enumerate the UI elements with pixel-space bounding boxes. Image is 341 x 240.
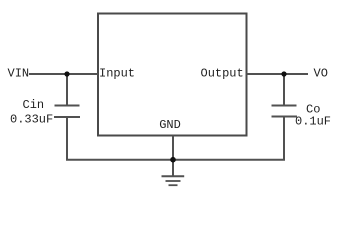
svg-text:0.1uF: 0.1uF bbox=[295, 115, 331, 129]
svg-text:VO: VO bbox=[314, 67, 328, 81]
svg-text:Cin: Cin bbox=[23, 98, 45, 112]
svg-text:Input: Input bbox=[99, 67, 135, 81]
svg-text:0.33uF: 0.33uF bbox=[10, 112, 53, 126]
svg-text:VIN: VIN bbox=[8, 67, 30, 81]
svg-text:GND: GND bbox=[159, 118, 181, 132]
svg-text:Output: Output bbox=[201, 67, 244, 81]
